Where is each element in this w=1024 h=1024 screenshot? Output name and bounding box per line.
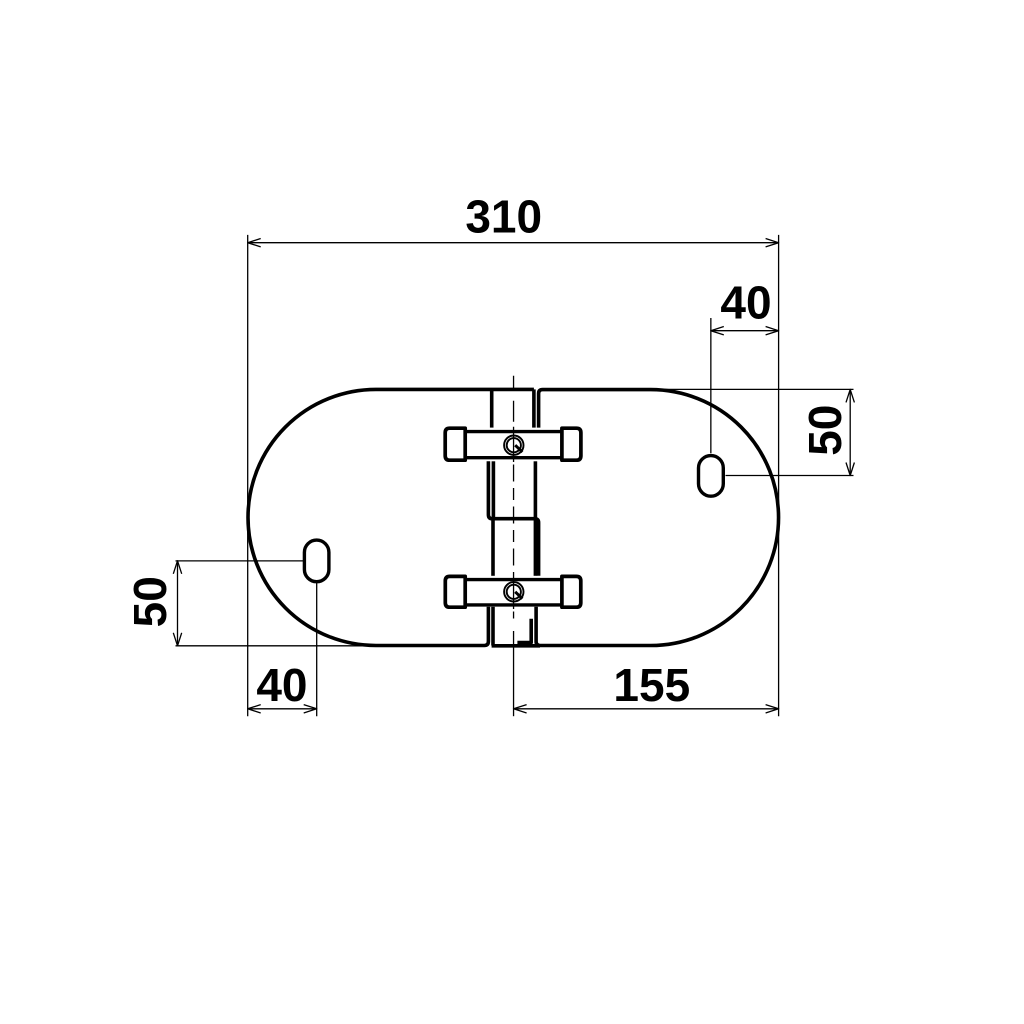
dimension 310 arrow right [766, 239, 779, 247]
vertical centreline dashed above top bar [513, 376, 515, 427]
dimension 155 arrow right [766, 705, 779, 713]
hinge spine mid-upper right inner line [534, 461, 538, 518]
dimension 50 right extension line top [649, 388, 854, 390]
svg-text:40: 40 [256, 659, 307, 711]
dimension 155 line [514, 708, 779, 710]
centreline solid through top bar [513, 427, 515, 462]
dimension 50 right line [849, 389, 851, 475]
right slotted hole [699, 456, 724, 497]
dimension 50 left arrow bottom [173, 633, 181, 646]
dimension 50 right extension line bottom [726, 475, 854, 477]
dimension 155 arrow left [514, 705, 527, 713]
bottom clamp bar left cap [445, 576, 465, 607]
dimension 310 line [248, 242, 779, 244]
dimension 50 left arrow top [173, 561, 181, 574]
hinge spine top-right seam line [532, 389, 536, 427]
centreline solid through bottom bar [513, 576, 515, 610]
right plate outline [536, 390, 778, 646]
left plate outline [248, 389, 534, 645]
dimension 310 extension line right [778, 235, 780, 716]
centreline dash below bottom bar [513, 612, 515, 619]
top clamp bar left cap [445, 428, 465, 460]
bottom step detail L-mark [517, 619, 531, 643]
bottom screw symbol Q [504, 582, 523, 601]
bottom clamp bar right cap [562, 576, 581, 607]
top clamp bar right cap [562, 428, 581, 460]
hinge spine bottom-left inner line [491, 607, 495, 646]
hinge spine mid-lower left inner line [491, 519, 495, 576]
hinge spine mid-lower right inner line [534, 519, 538, 576]
dimension 50 left line [177, 561, 179, 646]
hinge spine top-left seam line [490, 389, 494, 427]
dimension 40 bottom arrow right [304, 705, 317, 713]
centreline dashed mid section [513, 465, 515, 576]
dimension 310 arrow left [248, 239, 261, 247]
svg-text:310: 310 [465, 191, 542, 243]
top clamp bar centre body [465, 432, 562, 458]
hinge spine bottom edge segment [492, 644, 540, 648]
dimension 50 left extension line bottom [176, 645, 391, 647]
left slotted hole [304, 540, 329, 582]
centreline solid extension below [513, 631, 515, 716]
top screw symbol Q [504, 436, 523, 455]
dimension 40 top-right arrow left [711, 327, 724, 335]
dimension 40 top-right arrow right [766, 327, 779, 335]
dimension 50 left extension line top [176, 560, 304, 562]
svg-text:155: 155 [613, 659, 690, 711]
hinge spine mid-upper left inner line [492, 461, 496, 518]
svg-text:40: 40 [720, 277, 771, 329]
dimension 50 right arrow bottom [846, 463, 854, 476]
dimension 40 bottom extension line [316, 583, 318, 717]
hinge spine stepped seam contour [488, 461, 538, 576]
dimension 40 top-right line [711, 330, 779, 332]
svg-text:50: 50 [799, 405, 851, 456]
bottom clamp bar centre body [465, 580, 562, 605]
dimension 40 bottom line [248, 708, 317, 710]
dimension 40 bottom arrow left [248, 705, 261, 713]
svg-text:50: 50 [124, 576, 176, 627]
dimension 40 top-right extension line [710, 318, 712, 453]
dimension 310 extension line left [247, 235, 249, 716]
dimension 50 right arrow top [846, 389, 854, 402]
